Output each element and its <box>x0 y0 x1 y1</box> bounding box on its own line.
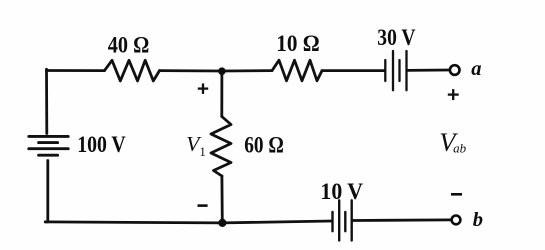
battery 10V plates <box>333 200 352 240</box>
wire top middle <box>160 69 223 72</box>
label 30 V <box>377 25 416 51</box>
svg-text:ab: ab <box>453 141 467 156</box>
battery 30V plates <box>385 51 406 90</box>
minus sign at terminal b <box>451 193 462 196</box>
svg-text:100 V: 100 V <box>77 132 126 158</box>
battery 100V plates <box>29 136 68 155</box>
resistor R3 60ohm zigzag <box>211 117 231 177</box>
label Vab <box>439 127 466 157</box>
wire 30V to terminal a <box>408 69 449 72</box>
svg-text:a: a <box>471 58 481 80</box>
label 10 ohm <box>276 30 319 56</box>
resistor R1 40ohm zigzag <box>105 60 160 81</box>
svg-text:60 Ω: 60 Ω <box>244 132 284 158</box>
wire top-left horizontal <box>47 69 105 72</box>
label 100 V <box>77 132 126 158</box>
svg-text:10 Ω: 10 Ω <box>276 30 319 56</box>
label 10 V <box>320 178 363 204</box>
minus sign at node V1 <box>198 204 208 207</box>
wire bottom left <box>45 222 222 223</box>
terminal b open circle <box>452 216 461 225</box>
wire 10ohm to 30V battery <box>322 69 384 72</box>
resistor R2 10ohm zigzag <box>272 60 322 81</box>
svg-text:10 V: 10 V <box>320 178 363 204</box>
svg-text:b: b <box>473 209 483 231</box>
svg-text:30 V: 30 V <box>377 25 416 51</box>
node bottom junction dot <box>218 219 226 227</box>
wire left vertical upper <box>45 69 48 133</box>
plus sign at terminal a <box>448 89 459 100</box>
wire middle branch upper <box>220 71 223 117</box>
label 40 ohm <box>108 32 150 57</box>
wire left vertical lower <box>45 161 48 222</box>
wire bottom node to 10V battery <box>222 221 332 223</box>
plus sign at node V1 <box>198 83 208 94</box>
wire 10V to terminal b <box>353 218 451 221</box>
label V1 <box>186 132 205 159</box>
terminal a open circle <box>450 65 460 75</box>
svg-text:40 Ω: 40 Ω <box>108 32 150 57</box>
svg-text:1: 1 <box>200 145 206 159</box>
label 60 ohm <box>244 132 284 158</box>
wire middle branch lower <box>220 176 223 223</box>
node top junction dot <box>218 67 226 75</box>
wire node to 10ohm <box>222 69 272 72</box>
